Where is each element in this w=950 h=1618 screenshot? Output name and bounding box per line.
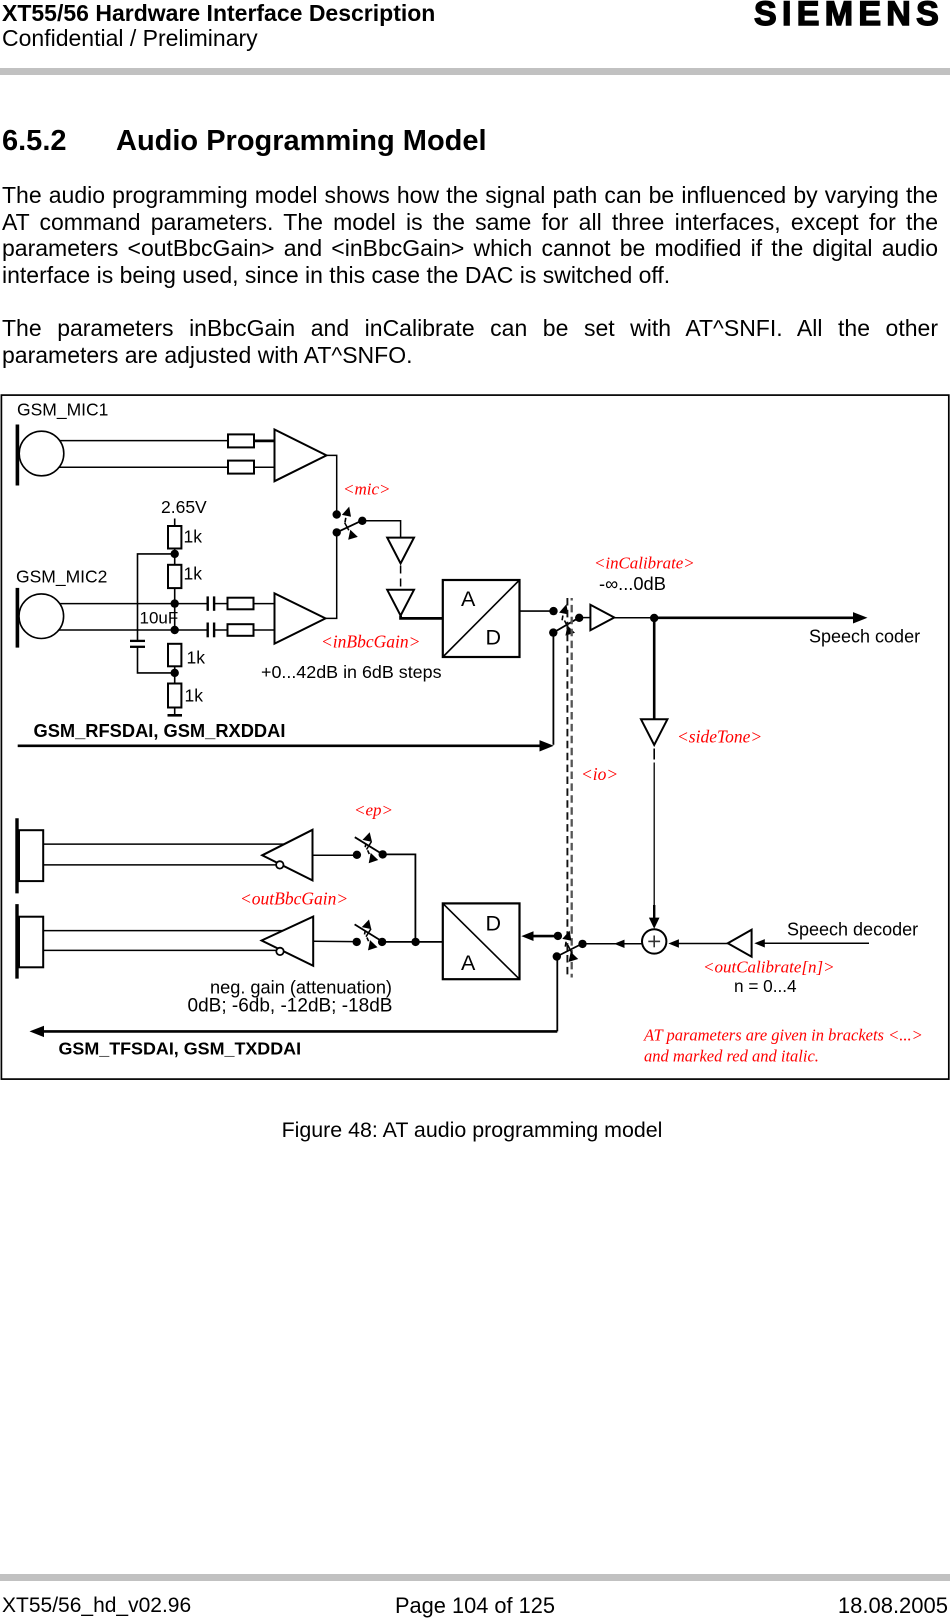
svg-text:GSM_MIC1: GSM_MIC1: [17, 400, 108, 421]
wire summing to S5 with arrow: [586, 943, 642, 945]
svg-text:GSM_RFSDAI, GSM_RXDDAI: GSM_RFSDAI, GSM_RXDDAI: [34, 720, 286, 741]
resistor R6: [228, 624, 254, 636]
io boundary dashed line 1: [566, 598, 568, 978]
loudspeaker EP2: [17, 904, 43, 979]
switch S3 ep1: [353, 832, 387, 863]
resistor mic1 top: [228, 434, 254, 447]
svg-text:<ep>: <ep>: [354, 800, 393, 819]
dashed connector T1-T2: [400, 566, 402, 590]
svg-text:+0...42dB in 6dB steps: +0...42dB in 6dB steps: [261, 662, 442, 682]
op-amp ep1 (inverting, points left): [262, 830, 312, 881]
wire into DAC with arrow: [532, 935, 554, 938]
op-amp ep2 (inverting, points left): [262, 917, 314, 966]
attenuator outCalibrate triangle: [728, 930, 752, 957]
svg-text:<inBbcGain>: <inBbcGain>: [321, 631, 420, 651]
wire ep2 top: [43, 930, 283, 932]
wire ep1 top: [43, 843, 285, 845]
wire RFSDAI vertical riser: [552, 633, 554, 745]
wire ep1 bottom: [43, 864, 276, 866]
wire speech decoder with arrow: [764, 942, 869, 944]
wire R4 to node J2: [174, 588, 176, 630]
wire C2 to R6: [214, 629, 227, 631]
wire mic1 top: [59, 440, 228, 442]
wire left branch top: [138, 554, 175, 640]
svg-text:D: D: [486, 626, 502, 650]
resistor mic1 bottom: [228, 461, 254, 474]
wire S5 down to TFSDAI bus: [556, 957, 558, 1032]
node J1: [171, 550, 179, 558]
section number: [2, 127, 67, 156]
inverting bubble ep2: [276, 948, 283, 955]
wire amp1 output to switch: [327, 455, 337, 511]
op-amp mic1: [275, 430, 327, 482]
svg-text:AT parameters are given in bra: AT parameters are given in brackets <...…: [643, 1025, 923, 1044]
node J2: [171, 599, 179, 607]
svg-text:1k: 1k: [185, 686, 204, 706]
attenuator triangle T2: [387, 590, 414, 616]
microphone MIC1: [17, 425, 63, 486]
svg-text:A: A: [461, 951, 476, 975]
attenuator sideTone triangle: [641, 719, 667, 745]
SIEMENS logo: [754, 0, 944, 31]
resistor R3 1k vertical: [168, 526, 181, 549]
wire R3-R4: [174, 549, 176, 565]
op-amp mic2: [275, 593, 326, 643]
footer left: [2, 1595, 191, 1616]
wire sideTone to summing node: [653, 763, 655, 906]
wire amp to node J5: [614, 617, 654, 619]
svg-text:<inCalibrate>: <inCalibrate>: [594, 554, 695, 573]
svg-text:1k: 1k: [187, 648, 206, 668]
wire C1 to R5: [214, 603, 227, 605]
node J6: [411, 938, 419, 946]
capacitor C3 shunt 10uF: [130, 641, 145, 647]
section title: [116, 127, 487, 156]
io boundary dashed line 2: [571, 598, 573, 978]
svg-text:-∞...0dB: -∞...0dB: [599, 573, 666, 594]
switch S1 mic-select: [333, 507, 367, 540]
wire J5 down to sideTone: [653, 618, 656, 719]
footer rule: [0, 1574, 950, 1581]
wire GSM_RFSDAI bus: [18, 744, 541, 747]
svg-text:10uF: 10uF: [140, 608, 179, 627]
svg-text:and marked red and italic.: and marked red and italic.: [644, 1046, 819, 1065]
resistor R8 1k vertical: [168, 684, 181, 708]
attenuator triangle T1 (inCalibrate): [387, 538, 414, 564]
svg-text:<outCalibrate[n]>: <outCalibrate[n]>: [703, 958, 835, 977]
footer right: [838, 1595, 948, 1617]
svg-text:<sideTone>: <sideTone>: [677, 727, 762, 747]
node J4: [171, 669, 179, 677]
wire mic1 bottom: [59, 466, 228, 468]
node J3: [171, 626, 179, 634]
header subtitle: [2, 27, 258, 50]
node J5: [650, 614, 658, 622]
header rule: [0, 68, 950, 75]
dashed stub below sideTone: [653, 749, 655, 760]
wire T2 to ADC (thick): [401, 616, 443, 619]
header title: [2, 2, 435, 25]
ADC block A/D: [443, 580, 520, 657]
svg-text:2.65V: 2.65V: [161, 497, 207, 517]
svg-text:0dB; -6db, -12dB; -18dB: 0dB; -6db, -12dB; -18dB: [188, 996, 393, 1017]
wire GSM_TFSDAI bus: [43, 1030, 558, 1033]
wire mic2 top row: [59, 603, 207, 605]
svg-text:GSM_MIC2: GSM_MIC2: [16, 567, 107, 588]
svg-text:1k: 1k: [184, 527, 203, 547]
figure frame: [1, 395, 948, 1079]
wire S3 to DAC junction: [383, 854, 416, 942]
figure caption: [0, 1117, 947, 1143]
resistor R5: [228, 598, 254, 610]
DAC block D/A: [443, 903, 520, 979]
inverting bubble ep1: [276, 861, 283, 868]
wire R6 to amp2: [254, 629, 276, 631]
wire summing input right with arrow: [677, 943, 728, 945]
wire mic2 bottom row: [59, 629, 207, 631]
microphone MIC2: [17, 588, 63, 648]
svg-text:Speech decoder: Speech decoder: [787, 920, 918, 940]
capacitor C1 series: [208, 596, 214, 610]
resistor R4 1k vertical: [168, 565, 181, 588]
resistor R7 1k vertical: [168, 644, 181, 667]
wire S2 common to amp: [583, 617, 591, 619]
switch S5 io-decode: [553, 931, 587, 962]
amp inCalibrate triangle: [590, 605, 614, 630]
wire R5 to amp2: [254, 603, 276, 605]
wire 2.65V stub: [174, 519, 176, 527]
wire ep2 bottom: [43, 949, 276, 951]
capacitor C2 series: [208, 623, 214, 638]
wire ADC out: [520, 610, 551, 612]
svg-text:n = 0...4: n = 0...4: [734, 976, 797, 996]
switch S2 io-encode: [549, 604, 583, 637]
wire amp ep2 output: [313, 940, 353, 942]
wire resistor to amp (thick): [254, 439, 275, 442]
svg-text:D: D: [486, 912, 502, 936]
summing junction: [642, 929, 666, 953]
paragraph 1: [2, 182, 938, 288]
wire amp ep1 output: [313, 854, 354, 856]
wire R7 to J4: [174, 666, 176, 683]
svg-text:<outBbcGain>: <outBbcGain>: [240, 889, 348, 909]
footer center: [0, 1595, 950, 1617]
wire amp2 output up to switch: [326, 536, 337, 618]
wire left branch bottom: [138, 647, 172, 673]
wire S4 to DAC: [382, 941, 443, 943]
loudspeaker EP1: [17, 818, 43, 893]
paragraph 2: [2, 315, 938, 368]
svg-text:<mic>: <mic>: [343, 480, 391, 499]
wire speech coder arrow: [654, 616, 854, 619]
wire S1 common to attenuator: [362, 521, 400, 537]
svg-text:A: A: [461, 587, 476, 611]
wire resistor to amp: [254, 466, 275, 468]
switch S4 ep2: [353, 920, 387, 951]
svg-text:<io>: <io>: [581, 764, 618, 784]
svg-text:Speech coder: Speech coder: [809, 627, 920, 647]
svg-text:GSM_TFSDAI, GSM_TXDDAI: GSM_TFSDAI, GSM_TXDDAI: [59, 1039, 302, 1059]
ground terminal: [168, 708, 183, 716]
svg-text:1k: 1k: [184, 564, 203, 584]
